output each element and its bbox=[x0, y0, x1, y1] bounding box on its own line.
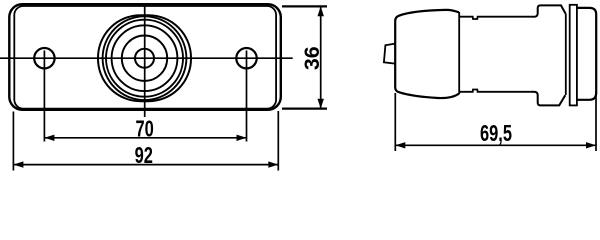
side view: gasket ring bbox=[570, 5, 577, 106]
dimension 69,5 right arrow bbox=[586, 142, 596, 148]
dimension 92 line bbox=[13, 164, 278, 166]
dimension 36 bottom extension line bbox=[282, 107, 327, 109]
lens ring r38 bbox=[106, 20, 183, 97]
svg-text:70: 70 bbox=[135, 117, 153, 142]
lamp housing outer outline (front view) bbox=[9, 4, 281, 110]
dimension 70 left arrow bbox=[44, 135, 54, 141]
lens center circle bbox=[135, 49, 154, 68]
dimension 70 right arrow bbox=[237, 135, 247, 141]
right hole axis line bbox=[246, 51, 248, 142]
svg-text:69,5: 69,5 bbox=[480, 121, 512, 146]
side view: lens dome profile bbox=[577, 8, 596, 100]
lamp lens inner outline (front view) bbox=[14, 6, 276, 109]
dimension 69,5 right extension line bbox=[595, 92, 597, 151]
lens ring r41 bbox=[103, 16, 187, 100]
side view: neck top edge with notch bbox=[459, 17, 531, 19]
dimension 92 right arrow bbox=[268, 161, 278, 167]
side view: neck bottom edge with notch bbox=[459, 90, 531, 92]
dimension 69,5 left extension line bbox=[394, 93, 396, 151]
side view: flange bottom profile bbox=[531, 92, 565, 106]
dimension 36 top extension line bbox=[282, 5, 327, 7]
dimension 36 top arrow bbox=[318, 6, 324, 16]
lens outer contour bbox=[98, 15, 191, 101]
side view: flange/bezel joint line bbox=[565, 14, 567, 95]
horizontal centerline bbox=[0, 57, 293, 59]
dimension 69,5 line bbox=[395, 144, 596, 146]
dimension 92 right extension line bbox=[277, 111, 279, 171]
right mounting hole bbox=[236, 48, 256, 68]
vertical centerline bbox=[144, 5, 146, 118]
side view: connector tab bbox=[384, 44, 395, 64]
svg-text:92: 92 bbox=[135, 143, 153, 168]
dimension 70 line bbox=[44, 137, 246, 139]
side view: flange top profile bbox=[531, 5, 566, 16]
left hole axis line bbox=[43, 51, 45, 142]
dimension 69,5 left arrow bbox=[395, 142, 405, 148]
dimension 92 left arrow bbox=[13, 161, 23, 167]
left mounting hole bbox=[34, 48, 54, 68]
lens ring r23 bbox=[122, 36, 167, 81]
dimension 92 left extension line bbox=[12, 112, 14, 171]
side view: body/neck boundary bbox=[458, 12, 460, 94]
dimension 36 bottom arrow bbox=[318, 99, 324, 109]
lens ring r33 bbox=[112, 25, 178, 91]
svg-text:36: 36 bbox=[300, 46, 324, 70]
dimension 36 line bbox=[320, 6, 322, 109]
side view: housing body outline bbox=[395, 10, 459, 98]
